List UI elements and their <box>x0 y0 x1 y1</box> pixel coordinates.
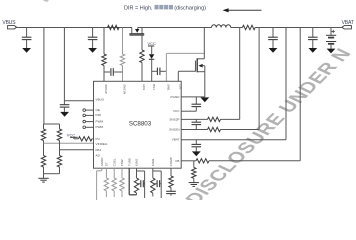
wire pin <box>113 168 115 178</box>
svg-text:TUNE: TUNE <box>127 158 131 166</box>
wire VCC to diode <box>151 46 153 54</box>
wire divider feed <box>44 28 60 130</box>
wire rail after inductor <box>231 27 243 29</box>
wire VBAT pin <box>181 28 286 140</box>
wire SNS1N <box>122 28 124 55</box>
svg-text:SNS1P: SNS1P <box>104 84 108 94</box>
wire down <box>113 191 115 197</box>
resistor R16 <box>112 178 116 191</box>
wire ILIM2 pin <box>153 168 161 198</box>
wire AGND <box>97 168 102 200</box>
wire SNS2P to pin <box>181 118 207 120</box>
svg-text:VBAT: VBAT <box>342 20 354 26</box>
capacitor C6 filter <box>192 119 202 129</box>
wire pin <box>121 168 123 178</box>
capacitor C10 <box>308 28 318 49</box>
wire SNS1P <box>103 28 105 55</box>
svg-text:VCC: VCC <box>67 132 76 137</box>
resistor R19 <box>151 178 155 193</box>
arrow left <box>223 8 262 12</box>
ground <box>327 49 336 54</box>
battery BT1 <box>326 28 336 49</box>
wire VBUS to IC <box>64 28 93 101</box>
wire LD1 to Q2 gate <box>178 71 195 81</box>
svg-text:PGND: PGND <box>171 95 181 99</box>
resistor R15 <box>104 178 108 191</box>
ground <box>200 97 209 102</box>
resistor R9 gate <box>140 50 144 63</box>
resistor R2 sense <box>242 25 255 29</box>
wire to C13 <box>170 188 172 192</box>
wire VBUS rail <box>17 27 212 29</box>
ground <box>189 183 199 187</box>
capacitor C8 <box>192 140 202 152</box>
resistor R1 sense <box>108 25 120 29</box>
capacitor C7 <box>192 97 202 111</box>
svg-text:PU: PU <box>96 137 100 141</box>
note DIR mode <box>124 5 206 12</box>
wire PGND <box>181 96 205 98</box>
svg-text:DT: DT <box>105 162 109 166</box>
wire FB lower <box>193 161 195 168</box>
ground <box>88 48 97 53</box>
watermark <box>31 0 356 208</box>
wire R19 bottom <box>152 193 154 196</box>
resistor R14 <box>78 137 92 141</box>
wire FB pin <box>181 160 196 162</box>
power VCC <box>147 41 156 46</box>
resistor R17 <box>120 178 124 191</box>
svg-text:SW1: SW1 <box>167 84 171 91</box>
resistor R3 <box>41 129 45 141</box>
ground <box>308 48 317 53</box>
svg-text:HD1: HD1 <box>142 84 146 90</box>
wire rail to VBAT <box>255 27 342 29</box>
wire down <box>121 191 123 197</box>
svg-text:VINREG: VINREG <box>96 142 108 146</box>
resistor R12 <box>196 159 209 163</box>
capacitor C3 <box>60 101 70 112</box>
wire gate to HD1 <box>141 63 143 82</box>
capacitor C1 <box>22 28 32 49</box>
svg-text:FSW: FSW <box>120 159 124 166</box>
diode D1 <box>149 54 154 59</box>
wire SNS1P to pin <box>103 66 105 82</box>
svg-text:VBAT: VBAT <box>172 138 180 142</box>
resistor R6 <box>57 156 61 168</box>
capacitor C12 <box>153 180 161 187</box>
svg-text:ILIM1: ILIM1 <box>135 158 139 166</box>
svg-text:VBUS: VBUS <box>2 20 16 26</box>
ground <box>192 151 201 156</box>
svg-text:FB: FB <box>176 159 180 163</box>
svg-text:DIR = High,: DIR = High, <box>124 6 153 12</box>
svg-text:LD1: LD1 <box>179 84 183 90</box>
svg-text:SNS1N: SNS1N <box>123 84 127 94</box>
wire SNS2P <box>221 28 240 120</box>
capacitor C13 <box>166 191 176 193</box>
wire diode to BS1 <box>151 59 153 81</box>
capacitor C2 <box>88 28 98 49</box>
pin labels bottom <box>100 157 173 167</box>
svg-text:ILIM2: ILIM2 <box>151 158 155 166</box>
transistor Q1 <box>129 28 144 36</box>
resistor R8 <box>120 54 124 66</box>
svg-text:VBUS: VBUS <box>96 97 104 101</box>
resistor R4 <box>57 129 61 141</box>
power VCC <box>67 132 79 139</box>
capacitor C4 filter <box>104 68 123 76</box>
wire COMP pin <box>170 168 172 176</box>
input pins OE DIR PWM <box>83 109 94 129</box>
wire VCC pin <box>181 110 196 112</box>
port VBAT <box>342 20 354 29</box>
inductor L1 <box>211 25 230 28</box>
resistor R18 <box>134 178 138 193</box>
pin labels right <box>169 95 180 163</box>
wire Q2 source down <box>204 66 206 97</box>
wire SW1 <box>166 53 204 81</box>
svg-text:VCC: VCC <box>147 41 156 46</box>
wire pin <box>105 168 107 178</box>
ground <box>38 178 48 182</box>
svg-text:DIR: DIR <box>96 113 102 117</box>
svg-text:OE: OE <box>96 108 100 112</box>
wire TUNE <box>129 168 136 195</box>
ground <box>269 48 278 53</box>
capacitor C9 <box>268 28 278 49</box>
resistor R5 <box>41 156 45 168</box>
op-amp U1 SC8803 body <box>94 81 182 168</box>
svg-text:CSEL: CSEL <box>112 158 116 166</box>
wire SNS2N <box>221 28 260 130</box>
wire to ground <box>193 178 195 182</box>
wire SW2 <box>203 28 205 59</box>
capacitor C11 <box>137 180 145 187</box>
wire node VINREG <box>44 141 94 156</box>
svg-text:COMP: COMP <box>169 157 173 166</box>
wire R18 bottom <box>136 193 138 195</box>
resistor R11 <box>208 127 221 131</box>
resistor R7 <box>102 54 106 66</box>
wire ILIM1 pin <box>137 168 145 198</box>
wire SNS2N to pin <box>181 129 207 131</box>
pin labels left <box>96 97 108 157</box>
wire SNS1N to pin <box>122 66 124 82</box>
wire Q1 gate <box>141 35 143 50</box>
wire node FB1 <box>60 141 94 156</box>
svg-text:AGND: AGND <box>100 157 104 167</box>
svg-text:SC8803: SC8803 <box>129 121 152 128</box>
ground <box>22 48 31 53</box>
svg-text:(discharging): (discharging) <box>174 6 206 12</box>
svg-text:FB1: FB1 <box>96 148 102 152</box>
svg-text:PWM: PWM <box>96 125 104 129</box>
wire down <box>105 191 107 197</box>
transistor Q2 <box>195 58 204 72</box>
svg-text:PWM: PWM <box>96 119 104 123</box>
svg-text:BS1: BS1 <box>152 84 156 90</box>
wire to PU pin <box>92 138 94 140</box>
wire C13 bottom <box>170 194 172 196</box>
svg-text:VCC: VCC <box>173 109 180 113</box>
ground <box>60 112 69 117</box>
resistor R20 <box>169 176 173 188</box>
wire FB to VBAT rail <box>209 28 300 161</box>
svg-text:AD: AD <box>96 154 101 158</box>
pin labels top <box>104 84 182 94</box>
svg-text:SNS2N: SNS2N <box>169 128 179 132</box>
resistor R10 <box>208 117 221 121</box>
capacitor C5 bootstrap <box>152 68 167 76</box>
svg-text:SNS2P: SNS2P <box>169 117 179 121</box>
port VBUS <box>2 20 16 29</box>
resistor R13 <box>192 168 196 179</box>
wire divider bottom <box>44 167 60 178</box>
